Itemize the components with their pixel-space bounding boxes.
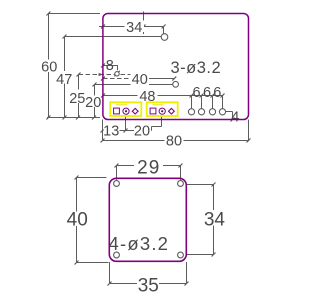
svg-text:4: 4 [231, 109, 239, 125]
svg-text:13: 13 [103, 123, 119, 139]
svg-text:29: 29 [137, 157, 160, 178]
svg-text:6: 6 [203, 85, 211, 101]
svg-text:3-ø3.2: 3-ø3.2 [171, 59, 222, 77]
svg-text:34: 34 [126, 20, 142, 36]
svg-text:8: 8 [106, 58, 114, 74]
svg-text:6: 6 [213, 85, 221, 101]
svg-text:4-ø3.2: 4-ø3.2 [109, 233, 170, 254]
svg-text:20: 20 [85, 95, 101, 111]
svg-text:25: 25 [69, 91, 85, 107]
svg-text:80: 80 [166, 134, 182, 150]
svg-text:34: 34 [204, 209, 226, 230]
svg-text:40: 40 [132, 72, 148, 88]
svg-text:35: 35 [138, 275, 159, 296]
svg-text:20: 20 [134, 124, 150, 140]
svg-text:60: 60 [41, 59, 57, 75]
svg-text:47: 47 [56, 72, 72, 88]
svg-text:6: 6 [192, 85, 200, 101]
svg-text:40: 40 [67, 210, 88, 231]
